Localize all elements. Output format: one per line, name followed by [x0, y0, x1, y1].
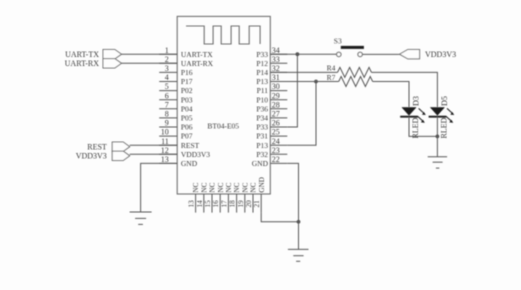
svg-text:P17: P17 [181, 77, 193, 86]
svg-text:GND: GND [252, 159, 269, 168]
pin 20 NC (bottom) [245, 182, 258, 212]
svg-text:26: 26 [272, 119, 280, 128]
pin 8 P05 (left) [159, 110, 193, 123]
svg-text:27: 27 [272, 110, 280, 119]
svg-text:GND: GND [258, 177, 266, 193]
svg-text:34: 34 [272, 46, 280, 55]
svg-text:9: 9 [165, 119, 169, 128]
resistor R7 [327, 73, 373, 87]
svg-text:25: 25 [272, 128, 280, 137]
pin 9 P06 (left) [159, 119, 193, 132]
svg-text:NC: NC [209, 182, 217, 192]
svg-text:VDD3V3: VDD3V3 [76, 152, 107, 161]
pin 5 P02 (left) [159, 82, 193, 95]
svg-text:RLED: RLED [439, 117, 448, 138]
svg-text:10: 10 [161, 128, 169, 137]
power flag VDD3V3 right [400, 50, 457, 60]
svg-text:P13: P13 [256, 141, 268, 150]
svg-text:32: 32 [272, 64, 280, 73]
svg-text:18: 18 [229, 200, 237, 208]
wire button to VDD3V3 flag [363, 53, 400, 55]
pin 32 P14 (right) [256, 64, 287, 77]
port flag UART-TX [65, 50, 121, 60]
wire D5 cathode to ground [436, 117, 438, 157]
pin 1 UART-TX (left) [159, 46, 213, 59]
pin 25 P31 (right) [256, 128, 287, 141]
pin 10 P07 (left) [159, 128, 193, 141]
svg-text:P03: P03 [181, 95, 193, 104]
wire pin 31 to R7 [270, 81, 338, 83]
ground symbol left [130, 212, 152, 224]
pin 33 P12 (right) [256, 55, 287, 68]
svg-text:UART-TX: UART-TX [65, 50, 99, 59]
pin 34 P33 (right) [256, 46, 287, 59]
ground symbol LED [428, 157, 447, 168]
svg-text:23: 23 [272, 146, 280, 155]
svg-text:6: 6 [165, 91, 169, 100]
pin 19 NC (bottom) [237, 182, 250, 212]
svg-text:P14: P14 [256, 68, 268, 77]
svg-text:NC: NC [225, 182, 233, 192]
svg-text:GND: GND [181, 159, 198, 168]
svg-text:NC: NC [217, 182, 225, 192]
pin 4 P17 (left) [159, 73, 193, 86]
svg-text:D3: D3 [411, 96, 420, 106]
wire pin 13 GND to ground [141, 163, 178, 212]
pin 14 NC (bottom) [196, 182, 209, 212]
ground symbol bottom right [288, 249, 309, 261]
LED D5 [429, 96, 455, 139]
junction GND net [297, 220, 301, 224]
svg-text:UART-RX: UART-RX [65, 59, 100, 68]
svg-text:31: 31 [272, 73, 280, 82]
pushbutton S3 [334, 37, 364, 57]
pin 24 P13 (right) [256, 137, 287, 150]
svg-text:7: 7 [165, 100, 169, 109]
pin 3 P16 (left) [159, 64, 193, 77]
IC U1 BT04-E05 body [177, 16, 270, 194]
pin 21 GND (bottom) [253, 177, 266, 213]
svg-text:P12: P12 [256, 59, 268, 68]
port flag REST [87, 142, 129, 151]
pin 2 UART-RX (left) [159, 55, 213, 68]
svg-text:29: 29 [272, 91, 280, 100]
wire R4 to LED D5 [371, 72, 437, 107]
wire UART-TX to pin 1 [122, 53, 178, 55]
svg-text:22: 22 [272, 155, 280, 164]
svg-text:NC: NC [241, 182, 249, 192]
pin 28 P36 (right) [256, 100, 287, 113]
wire VDD3V3 to pin 12 [130, 153, 178, 155]
pin 16 NC (bottom) [212, 182, 225, 212]
svg-text:4: 4 [165, 73, 169, 82]
svg-text:24: 24 [272, 137, 280, 146]
junction D3/D5 cathode join [436, 135, 440, 139]
svg-text:33: 33 [272, 55, 280, 64]
svg-text:R4: R4 [327, 63, 336, 72]
svg-text:16: 16 [212, 200, 220, 208]
svg-text:28: 28 [272, 100, 280, 109]
pin 13 GND (left) [159, 155, 198, 168]
svg-text:13: 13 [188, 200, 196, 208]
pin 12 VDD3V3 (left) [159, 146, 210, 159]
svg-text:20: 20 [245, 200, 253, 208]
svg-text:P11: P11 [257, 86, 269, 95]
svg-text:12: 12 [161, 146, 169, 155]
svg-text:5: 5 [165, 82, 169, 91]
pin 31 P13 (right) [256, 73, 287, 86]
pin 26 P33 (right) [256, 119, 287, 132]
svg-text:3: 3 [165, 64, 169, 73]
svg-text:P33: P33 [256, 50, 268, 59]
svg-text:NC: NC [200, 182, 208, 192]
svg-text:P02: P02 [181, 86, 193, 95]
svg-text:P06: P06 [181, 123, 193, 132]
junction pin34 net [296, 52, 300, 56]
svg-text:NC: NC [250, 182, 258, 192]
pin 15 NC (bottom) [204, 182, 217, 212]
svg-text:P05: P05 [181, 114, 193, 123]
port flag VDD3V3 left [76, 151, 130, 160]
wire pin 22 GND to ground [287, 163, 298, 249]
svg-text:NC: NC [192, 182, 200, 192]
LED D3 [400, 96, 426, 139]
svg-text:P07: P07 [181, 132, 193, 141]
svg-text:15: 15 [204, 200, 212, 208]
svg-text:R7: R7 [327, 73, 336, 82]
svg-text:UART-TX: UART-TX [181, 50, 213, 59]
svg-text:S3: S3 [334, 37, 342, 46]
antenna meander [186, 26, 260, 44]
svg-text:P34: P34 [256, 114, 268, 123]
pin 22 GND (right) [252, 155, 288, 168]
wire junction down to pin 24 [287, 82, 316, 146]
port flag UART-RX [65, 59, 122, 69]
wire UART-RX to pin 2 [122, 62, 178, 64]
wire pin 34 to button S3 [270, 53, 336, 55]
svg-text:D5: D5 [440, 96, 449, 106]
svg-text:REST: REST [181, 141, 200, 150]
svg-text:P33: P33 [256, 123, 268, 132]
svg-text:UART-RX: UART-RX [181, 59, 214, 68]
svg-text:VDD3V3: VDD3V3 [181, 150, 210, 159]
pin 11 REST (left) [159, 137, 199, 150]
wire D3 cathode to join [409, 117, 437, 137]
svg-text:P31: P31 [256, 132, 268, 141]
pin 27 P34 (right) [256, 110, 287, 123]
svg-text:VDD3V3: VDD3V3 [425, 50, 456, 59]
pin 29 P10 (right) [256, 91, 287, 104]
svg-text:P13: P13 [256, 77, 268, 86]
pin 7 P04 (left) [159, 100, 193, 113]
svg-text:13: 13 [161, 155, 169, 164]
pin 30 P11 (right) [257, 82, 288, 95]
svg-text:NC: NC [233, 182, 241, 192]
svg-text:8: 8 [165, 110, 169, 119]
svg-text:P04: P04 [181, 104, 193, 113]
svg-text:17: 17 [220, 200, 228, 208]
svg-text:19: 19 [237, 200, 245, 208]
wire R7 to LED D3 [373, 82, 409, 108]
pin 17 NC (bottom) [220, 182, 233, 212]
svg-text:11: 11 [161, 137, 169, 146]
svg-text:30: 30 [272, 82, 280, 91]
junction pin31 net [314, 80, 318, 84]
wire bottom GND pin to junction [261, 213, 298, 222]
svg-text:21: 21 [253, 200, 261, 208]
svg-text:2: 2 [165, 55, 169, 64]
svg-text:P16: P16 [181, 68, 193, 77]
wire REST to pin 11 [130, 144, 178, 146]
pin 13 NC (bottom) [188, 182, 201, 212]
svg-text:P36: P36 [256, 104, 268, 113]
svg-text:1: 1 [165, 46, 169, 55]
svg-text:P32: P32 [256, 150, 268, 159]
pin 18 NC (bottom) [229, 182, 242, 212]
svg-text:P10: P10 [256, 95, 268, 104]
svg-text:RLED: RLED [411, 117, 420, 138]
svg-text:REST: REST [87, 142, 107, 151]
svg-text:BT04-E05: BT04-E05 [207, 121, 239, 130]
wire junction down to pin 26 [287, 54, 297, 127]
pin 6 P03 (left) [159, 91, 193, 104]
pin 23 P32 (right) [256, 146, 287, 159]
wire pin 32 to R4 [270, 71, 337, 73]
resistor R4 [327, 63, 372, 77]
svg-text:14: 14 [196, 200, 204, 208]
